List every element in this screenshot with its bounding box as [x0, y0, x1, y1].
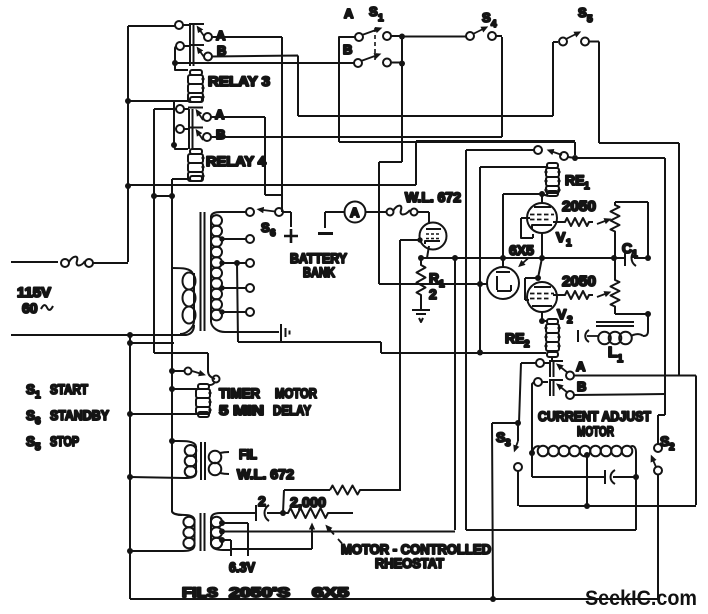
node S1-A-right	[399, 34, 405, 40]
rheostat 2000	[283, 508, 353, 518]
node relay3-63	[172, 60, 178, 66]
wire RE1 contact heavy line to right	[568, 157, 665, 444]
node bottom-rail-493	[490, 596, 496, 602]
node rail-185	[125, 183, 131, 189]
switch S3	[514, 423, 522, 506]
resistor V1 grid	[553, 218, 593, 226]
relay 3 contact A out terminal	[204, 33, 212, 41]
node 6X5 plate line	[477, 281, 483, 287]
node x154-196	[151, 193, 157, 199]
gang link S1	[374, 28, 376, 60]
wire 115V top lead to fuse	[11, 261, 58, 263]
capacitor 2	[223, 505, 283, 521]
node RE1 contact out	[572, 155, 578, 161]
dashed pointer motor controlled	[330, 530, 348, 550]
V1 grid hook	[521, 218, 533, 238]
wire RE1 coil bottom to plate node	[542, 194, 548, 196]
svg-text:1: 1	[584, 181, 590, 192]
wire V1 plate lead	[541, 194, 543, 204]
wire y196 link	[154, 195, 172, 197]
svg-text:2: 2	[524, 339, 530, 350]
node pot rail bottom	[645, 311, 651, 317]
wire relay4-A feed from x154	[154, 108, 176, 110]
node relay4-145	[171, 142, 177, 148]
resistor WL672 grid	[330, 486, 401, 495]
transformer FILS secondary	[211, 513, 230, 550]
switch S4	[466, 28, 496, 41]
node rail-414	[127, 411, 133, 417]
capacitor motor phase	[532, 470, 636, 484]
arrow to pot2	[597, 293, 609, 298]
motor relay contact B	[534, 378, 574, 399]
relay 3 contact A	[183, 24, 204, 45]
svg-text:RE: RE	[505, 330, 524, 346]
wire 6.3V stub B and wiper return	[230, 526, 312, 556]
wire fuse to left rail	[93, 26, 175, 263]
svg-text:L: L	[608, 344, 617, 361]
node WL672 grid exit	[417, 237, 422, 242]
wire ammeter to fuse2	[366, 211, 387, 213]
node R1 top	[418, 255, 424, 261]
node motor left	[529, 450, 535, 456]
svg-text:2: 2	[669, 442, 675, 453]
wire S6 to battery plus	[283, 212, 291, 227]
svg-text:1: 1	[566, 238, 572, 249]
node B+ 542	[539, 255, 545, 261]
potentiometer pot1	[611, 202, 620, 258]
wire S5 out down right side	[589, 42, 679, 376]
wire relay4 coil bottom to transformer feed	[172, 179, 188, 196]
wire rheostat riser to grid resistor	[283, 490, 330, 513]
timer motor coil	[196, 384, 212, 417]
wire timer coil bottom to rail	[130, 413, 197, 415]
svg-text:2050: 2050	[562, 274, 596, 290]
relay coil RELAY4	[188, 149, 205, 181]
relay 4 contact B terminal	[176, 125, 184, 133]
wire V2 grid link	[538, 258, 542, 278]
resistor V2 grid	[553, 291, 593, 299]
node timer-172	[169, 368, 175, 374]
node rail-477	[127, 474, 133, 480]
wire timer coil upper tap	[172, 388, 197, 390]
wire primary feed vertical x172	[172, 196, 182, 515]
tube 6X5	[487, 267, 519, 299]
node B+ 455	[452, 255, 458, 261]
timer contact	[172, 368, 220, 386]
wire 6X5 cathode to V1 plate	[503, 194, 542, 267]
switch S1 pole A	[355, 29, 391, 42]
wire contact A out	[574, 376, 696, 506]
wire S4 out	[496, 35, 502, 37]
wire 115V bottom lead	[11, 325, 194, 335]
relay 3 contact B	[184, 45, 204, 66]
node rail-101	[125, 98, 131, 104]
wire WL672 cathode down	[427, 246, 429, 258]
relay coil RE1	[544, 163, 560, 196]
wire pot2 bottom rail	[615, 307, 648, 314]
node tap2 centertap	[234, 260, 240, 266]
svg-text:RE: RE	[565, 172, 584, 188]
tube V1 2050	[527, 203, 557, 233]
motor relay contact A	[536, 359, 574, 380]
transformer FILS primary	[130, 511, 195, 551]
switch S5	[559, 33, 589, 46]
node RE2 top	[539, 318, 545, 324]
FILS taps	[219, 520, 455, 543]
wire motor left down to phase cap	[531, 453, 533, 477]
svg-text:1: 1	[617, 353, 623, 365]
ground R1	[412, 299, 430, 322]
capacitor C1	[621, 250, 648, 266]
node V1 plate	[539, 191, 545, 197]
transformer T1 core	[201, 212, 205, 331]
node timer-389	[169, 386, 175, 392]
svg-text:A: A	[576, 359, 586, 374]
wire V1 cathode down	[541, 233, 543, 258]
wire relay3 coil bottom to rail	[128, 100, 188, 102]
svg-text:S: S	[496, 429, 505, 445]
svg-text:2: 2	[567, 315, 573, 326]
timer contact feed	[154, 353, 215, 379]
V2 grid hook	[525, 278, 538, 300]
wire S1 right poles tie	[379, 36, 487, 284]
node S1-B-right	[399, 61, 405, 67]
svg-text:3: 3	[505, 438, 511, 449]
wire V2 cathode to RE2	[541, 312, 543, 321]
wire bottom rail	[130, 598, 658, 600]
wire relay4-B out to S4 drop	[211, 37, 502, 137]
inductor L1	[578, 322, 643, 344]
wire relay3-B to S5	[212, 42, 558, 116]
node B+ 648	[645, 255, 651, 261]
wire rail stub 343	[130, 335, 174, 599]
wire plate supply top y167	[480, 167, 548, 353]
wire B+ line y258	[421, 257, 648, 259]
switch S1 pole B	[354, 55, 391, 68]
node B+ 503	[500, 255, 506, 261]
svg-text:CURRENT ADJUST: CURRENT ADJUST	[538, 408, 651, 424]
wire relay3-A to battery plus	[212, 37, 282, 212]
wire contact B out to x665	[574, 394, 665, 395]
wire 6.3V stub A	[247, 523, 249, 556]
transformer T1 taps	[219, 235, 254, 316]
wire x154 vertical	[153, 109, 155, 353]
switch S2	[652, 444, 662, 599]
relay 4 contact B out terminal	[203, 133, 211, 141]
transformer T1 secondary	[211, 212, 279, 332]
battery plus terminal	[284, 229, 298, 243]
node rheostat left	[280, 510, 286, 516]
transformer FILS core	[201, 513, 205, 551]
relay 3 contact A terminal	[175, 21, 183, 29]
wire fuse2 to WL672 plate	[417, 212, 429, 224]
fuse F1	[61, 257, 93, 267]
wire heater line right piece	[466, 529, 636, 531]
node x172-196	[169, 193, 175, 199]
wire WL672 left to grid return drop	[400, 240, 420, 490]
node FIL primary feed	[169, 438, 175, 444]
wire battery minus to ammeter	[325, 212, 345, 228]
switch S6	[246, 208, 283, 216]
svg-text:V: V	[556, 229, 566, 245]
node center tap on S3 line	[584, 503, 590, 509]
relay 4 contact A	[184, 108, 203, 130]
wire pot rail top	[615, 202, 648, 258]
svg-text:SeekIC.com: SeekIC.com	[585, 586, 697, 610]
node rail-335	[127, 332, 133, 338]
relay 3 contact B out terminal	[204, 53, 212, 61]
svg-text:2050: 2050	[562, 199, 596, 215]
transformer FIL672 core	[201, 442, 205, 480]
node rail-551	[127, 548, 133, 554]
wire x648 down to L1	[643, 314, 648, 336]
node rail-343	[127, 340, 133, 346]
relay 4 contact B	[184, 128, 203, 150]
svg-text:6X5: 6X5	[509, 242, 534, 258]
relay coil RE2	[542, 319, 561, 357]
node V2 grid	[535, 275, 541, 281]
wire y185 line rail to RE1 riser	[128, 141, 575, 185]
node S3 top	[515, 420, 521, 426]
transformer FIL672 secondary	[209, 451, 229, 476]
arrow to pot1	[597, 220, 609, 225]
wire RE1 contact feed from x466	[466, 150, 534, 530]
relay coil RELAY3	[188, 70, 205, 102]
svg-text:MOTOR: MOTOR	[577, 423, 614, 439]
wire S1 left poles to RE1 contact feed	[339, 37, 575, 155]
node motor cap right	[633, 474, 639, 480]
ground transformer secondary	[281, 324, 290, 341]
relay contact RE1	[534, 146, 568, 160]
wire motor right node down to heater line	[635, 477, 637, 530]
wire heater riser x455	[454, 258, 456, 530]
relay 4 contact A out terminal	[203, 113, 211, 121]
wire motor contact A feed	[519, 363, 536, 423]
svg-text:B: B	[577, 379, 586, 394]
transformer T1 primary	[172, 268, 196, 334]
node x480 on RE2 line	[477, 350, 483, 356]
node motor winding center	[584, 452, 590, 458]
tube V2 2050	[527, 282, 557, 312]
wire contact B feed down to motor	[532, 382, 534, 453]
relay 4 contact A terminal	[176, 105, 184, 113]
tube W.L.672	[420, 223, 447, 250]
wire relay3 node to S1 pole B	[175, 62, 354, 64]
ammeter A	[345, 202, 366, 223]
node B+ 614	[611, 255, 617, 261]
wire RE2 bottom to contact bars	[551, 357, 553, 361]
potentiometer pot2	[611, 258, 620, 307]
battery minus terminal	[318, 232, 333, 235]
wire relay4-A out	[211, 117, 282, 212]
transformer FIL672 primary	[130, 441, 196, 478]
wire center tap down and right to RE2	[237, 263, 546, 353]
resistor R1	[417, 258, 426, 299]
wire relay coil chain down	[174, 101, 188, 149]
arrow 6X5 pointer	[520, 258, 529, 266]
relay 3 contact B terminal	[176, 42, 184, 50]
wire motor center tap	[586, 457, 588, 506]
svg-text:C: C	[622, 240, 632, 256]
fuse F2	[387, 206, 418, 216]
wire S3 branch left down to rail	[492, 423, 518, 599]
wire relay3 coil feed	[175, 46, 188, 70]
svg-text:1: 1	[632, 249, 638, 260]
wire S1 to S4	[402, 36, 466, 38]
motor winding	[532, 446, 636, 477]
wire S3 line y506	[519, 505, 696, 507]
